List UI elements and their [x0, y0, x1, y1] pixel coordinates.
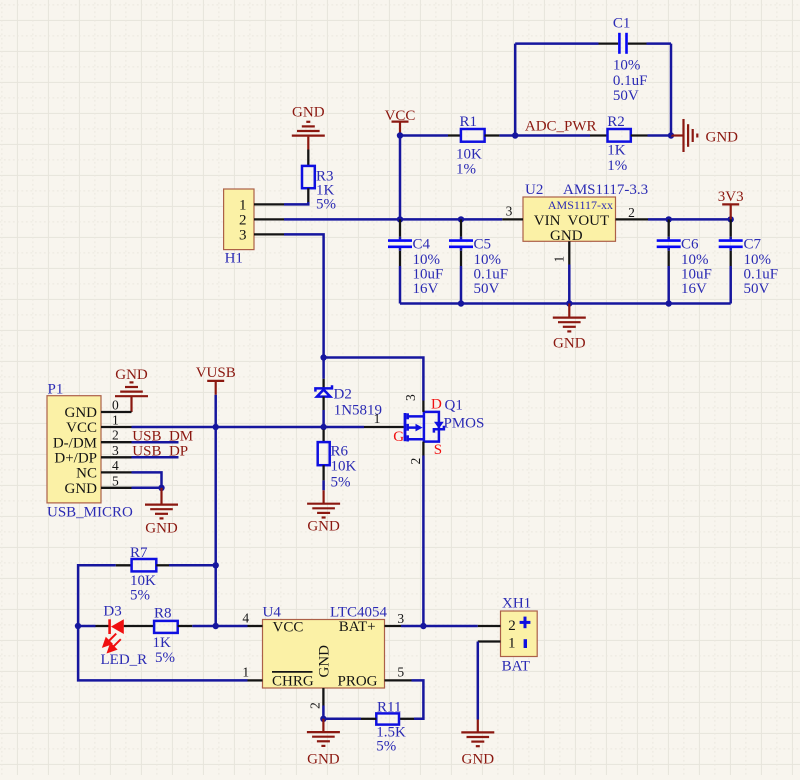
svg-text:5%: 5%: [331, 475, 351, 491]
wire R7 to VUSB rail: [169, 564, 216, 567]
C4 value labels: [413, 237, 444, 298]
svg-text:1%: 1%: [607, 158, 627, 174]
svg-text:GND: GND: [65, 481, 98, 497]
C7 pins: [730, 219, 732, 303]
wire bottom rail: [400, 302, 731, 305]
connector P1 USB_MICRO body: [47, 382, 133, 521]
wire XH1 pin1 to GND: [477, 642, 480, 720]
svg-text:P1: P1: [48, 382, 64, 398]
junction rail / C5: [458, 216, 464, 222]
wire P1 pin3 stub: [132, 456, 179, 459]
U2 pin 1 (GND): [568, 241, 570, 264]
wire Q1 source to BAT+ rail: [422, 456, 425, 627]
svg-text:5: 5: [397, 664, 404, 679]
junction ADC_PWR left: [512, 132, 518, 138]
resistor R7: [116, 545, 169, 604]
svg-text:PROG: PROG: [338, 673, 378, 689]
svg-text:3: 3: [112, 443, 119, 458]
resistor R1: [448, 114, 499, 178]
wire H1 pin2 rail to U2 VIN: [284, 218, 502, 221]
connector H1: [224, 189, 254, 267]
wire BAT+ to XH1: [401, 625, 478, 628]
power ground GND (below R11): [307, 719, 340, 768]
diode D2 1N5819: [315, 379, 382, 419]
P1 pin 5 (GND): [65, 473, 132, 497]
svg-text:GND: GND: [115, 367, 148, 383]
svg-text:3: 3: [403, 394, 418, 401]
power ground GND (below XH1): [461, 720, 494, 768]
junction VUSB rail / R7: [213, 562, 219, 568]
XH1 pin 2: [478, 625, 501, 627]
svg-text:5%: 5%: [376, 739, 396, 755]
resistor R11: [361, 700, 414, 755]
capacitor C4: [388, 241, 412, 247]
svg-text:10%: 10%: [613, 58, 641, 74]
junction VCC rail / C4: [397, 216, 403, 222]
wire P1 pin1 to VUSB node: [132, 426, 216, 429]
junction node at D2 top branch: [320, 354, 326, 360]
wire U4 PROG to R11: [412, 680, 424, 718]
resistor R3: [302, 150, 336, 213]
svg-text:USB_MICRO: USB_MICRO: [47, 505, 133, 521]
wire VUSB rail to U4 VCC: [216, 625, 248, 628]
junction BAT+ / Q1 source: [420, 623, 426, 629]
svg-text:XH1: XH1: [502, 595, 531, 611]
C7 value labels: [744, 237, 779, 298]
svg-text:4: 4: [242, 610, 249, 625]
wire P1 pin5 to GND node: [132, 487, 162, 490]
wire D2 cathode to node: [322, 410, 325, 427]
U2 pin 3 (VIN): [502, 218, 523, 220]
svg-text:U2: U2: [525, 182, 543, 198]
power ground GND (right of R2): [671, 119, 738, 152]
junction rail / C6: [666, 216, 672, 222]
junction rail / C7 / 3V3: [728, 216, 734, 222]
svg-text:NC: NC: [76, 466, 97, 482]
U4 pin 2 (GND): [322, 688, 324, 706]
svg-text:5%: 5%: [316, 197, 336, 213]
junction bottom rail / U2 GND: [566, 300, 572, 306]
Q1 pin 2 (source): [422, 442, 424, 456]
C5 pins: [460, 219, 462, 303]
power ground GND (above R3): [292, 105, 325, 150]
svg-text:GND: GND: [553, 335, 586, 351]
svg-text:VCC: VCC: [273, 619, 304, 635]
svg-text:D2: D2: [334, 386, 352, 402]
junction VCC node: [397, 132, 403, 138]
svg-text:U4: U4: [263, 605, 282, 621]
capacitor C7: [719, 241, 743, 247]
svg-text:GND: GND: [307, 519, 340, 535]
capacitor C5: [449, 241, 473, 247]
svg-text:S: S: [434, 442, 442, 458]
svg-text:BAT+: BAT+: [339, 619, 376, 635]
H1 pin 1: [254, 203, 284, 205]
junction VUSB / pin1: [213, 424, 219, 430]
svg-text:R2: R2: [607, 114, 625, 130]
svg-text:C4: C4: [413, 237, 431, 253]
resistor R8: [124, 606, 193, 667]
wire left rail: [78, 565, 247, 680]
wire P1 pin2 stub: [132, 441, 179, 444]
svg-text:10K: 10K: [331, 459, 357, 475]
power ground GND (below P1): [145, 488, 178, 537]
svg-text:2: 2: [112, 428, 119, 443]
svg-text:C1: C1: [613, 15, 631, 31]
wire U2 VOUT rail to 3V3: [648, 218, 731, 221]
wire R11 to U4 GND node: [323, 718, 361, 721]
svg-text:R6: R6: [331, 444, 349, 460]
wire P1 pin4 to pin5 node: [132, 472, 162, 487]
junction D2 / R6 / gate: [320, 424, 326, 430]
wire H1 pin1 to R3: [284, 202, 308, 204]
junction bottom rail / C5: [458, 300, 464, 306]
U4 pin 3 (BAT+): [385, 625, 402, 627]
svg-text:H1: H1: [225, 251, 243, 267]
svg-text:D+/DP: D+/DP: [54, 451, 97, 467]
wire junction to Q1 drain: [324, 358, 424, 401]
wire VUSB stem: [214, 395, 217, 427]
U4 pin 5 (PROG): [385, 679, 412, 681]
junction VUSB rail / R8 / U4 VCC: [213, 623, 219, 629]
wire C1 right leg: [670, 44, 673, 136]
junction U4 GND / R11: [320, 716, 326, 722]
svg-text:10K: 10K: [456, 147, 482, 163]
svg-text:16V: 16V: [413, 281, 439, 297]
power port 3V3: [718, 189, 744, 220]
power port VCC: [385, 108, 416, 136]
svg-text:D: D: [431, 396, 442, 412]
wire to D2 anode: [322, 358, 325, 379]
svg-text:50V: 50V: [474, 281, 500, 297]
U2 pin 2 (VOUT): [616, 218, 649, 220]
svg-text:GND: GND: [550, 228, 583, 244]
junction pin4/pin5 ground: [158, 485, 164, 491]
svg-text:0: 0: [112, 398, 119, 413]
svg-text:2: 2: [408, 458, 423, 465]
svg-text:5: 5: [112, 473, 119, 488]
svg-text:AMS1117-3.3: AMS1117-3.3: [563, 182, 648, 198]
svg-text:3: 3: [397, 611, 404, 626]
C6 pins: [668, 219, 670, 303]
U4 pin 1 (CHRG): [248, 679, 263, 681]
svg-text:D3: D3: [103, 604, 121, 620]
svg-text:3V3: 3V3: [718, 189, 744, 205]
svg-text:BAT: BAT: [502, 658, 530, 674]
svg-text:1: 1: [552, 256, 567, 263]
P1 pin 3 (D+/DP): [54, 443, 131, 467]
svg-text:VCC: VCC: [66, 420, 97, 436]
wire U2 GND to bottom rail: [568, 265, 571, 304]
op-amp U2 AMS1117-3.3 body: [523, 182, 648, 244]
svg-text:1%: 1%: [456, 162, 476, 178]
power ground GND (above P1 pin0): [115, 367, 148, 412]
junction left rail / LED: [75, 623, 81, 629]
wire VUSB vertical rail upper: [214, 427, 217, 565]
svg-text:LED_R: LED_R: [101, 652, 148, 668]
P1 pin 1 (VCC): [66, 413, 131, 437]
svg-text:GND: GND: [706, 129, 739, 145]
svg-text:G: G: [393, 429, 404, 445]
wire C1 top right: [647, 42, 672, 45]
wire gate pin lead: [324, 426, 364, 429]
wire H1 pin3 to vertical: [284, 234, 324, 357]
connector XH1 body: [501, 595, 538, 674]
wire U4 GND down: [322, 706, 325, 719]
svg-text:GND: GND: [292, 105, 325, 121]
svg-text:C7: C7: [744, 237, 762, 253]
svg-text:50V: 50V: [744, 281, 770, 297]
svg-text:1: 1: [374, 411, 381, 426]
svg-text:2: 2: [628, 205, 635, 220]
svg-text:GND: GND: [462, 751, 495, 767]
svg-text:3: 3: [239, 228, 247, 244]
Q1 labels: [393, 396, 484, 457]
H1 pin 3: [254, 233, 284, 235]
resistor R6: [318, 427, 357, 491]
transistor Q1 PMOS: [405, 412, 444, 442]
capacitor C1: [599, 15, 648, 104]
wire ADC_PWR to R2: [515, 134, 590, 137]
capacitor C6: [657, 241, 681, 247]
junction C1 right leg: [668, 132, 674, 138]
svg-text:D-/DM: D-/DM: [53, 435, 97, 451]
svg-text:GND: GND: [145, 520, 178, 536]
svg-text:R1: R1: [460, 114, 478, 130]
svg-text:GND: GND: [317, 645, 333, 678]
U4 pin 4 (VCC): [248, 625, 263, 627]
C5 value labels: [474, 237, 509, 298]
svg-text:GND: GND: [307, 751, 340, 767]
H1 pin 2: [254, 218, 284, 220]
svg-text:1K: 1K: [607, 143, 626, 159]
svg-text:VOUT: VOUT: [568, 213, 610, 229]
resistor R2: [590, 114, 648, 174]
svg-text:VIN: VIN: [534, 213, 561, 229]
wire R6 to GND: [322, 480, 325, 490]
power ground GND (below R6): [307, 490, 340, 534]
wire R8 to VUSB rail: [192, 625, 215, 628]
LED D3: [78, 604, 147, 668]
svg-text:4: 4: [112, 458, 119, 473]
svg-text:2: 2: [308, 702, 323, 709]
Q1 pin 3 (drain): [422, 401, 424, 412]
wire VCC to R1: [400, 134, 448, 137]
op-amp U4 LTC4054 body: [263, 605, 388, 690]
power port VUSB: [196, 365, 236, 395]
wire VCC vertical to rail: [399, 136, 402, 220]
svg-text:1K: 1K: [153, 635, 172, 651]
wire C1 top left: [515, 42, 598, 45]
svg-text:50V: 50V: [613, 88, 639, 104]
C6 value labels: [681, 237, 712, 298]
svg-text:5%: 5%: [155, 650, 175, 666]
svg-text:1: 1: [112, 413, 119, 428]
svg-text:CHRG: CHRG: [272, 673, 314, 689]
XH1 pin 1: [478, 640, 501, 642]
svg-text:1: 1: [239, 198, 247, 214]
svg-text:VUSB: VUSB: [196, 365, 236, 381]
svg-text:R11: R11: [377, 700, 401, 716]
power ground GND (below U2): [553, 304, 586, 352]
wire R1 to node ADC_PWR: [499, 134, 515, 137]
P1 pin 2 (D-/DM): [53, 428, 132, 452]
svg-text:C5: C5: [474, 237, 492, 253]
svg-text:5%: 5%: [130, 588, 150, 604]
junction bottom rail / C6: [666, 300, 672, 306]
svg-text:16V: 16V: [681, 281, 707, 297]
svg-text:3: 3: [506, 204, 513, 219]
svg-text:2: 2: [239, 213, 247, 229]
svg-text:1: 1: [242, 664, 249, 679]
wire VUSB rail lower: [214, 565, 217, 626]
svg-text:2: 2: [508, 618, 516, 634]
svg-text:AMS1117-xx: AMS1117-xx: [548, 198, 613, 212]
svg-text:R8: R8: [154, 606, 172, 622]
svg-text:GND: GND: [65, 405, 98, 421]
svg-text:0.1uF: 0.1uF: [613, 73, 648, 89]
svg-text:ADC_PWR: ADC_PWR: [525, 119, 597, 135]
svg-text:PMOS: PMOS: [444, 416, 485, 432]
svg-text:Q1: Q1: [445, 397, 463, 413]
svg-text:1: 1: [508, 636, 516, 652]
wire VUSB node to D2 node: [216, 426, 324, 429]
svg-text:VCC: VCC: [385, 108, 416, 124]
C4 pins: [399, 219, 401, 303]
P1 pin 0 (GND): [65, 398, 132, 422]
P1 pin 4 (NC): [76, 458, 131, 482]
svg-text:C6: C6: [681, 237, 699, 253]
wire R2 to GND node: [648, 134, 672, 137]
wire C1 left leg: [514, 44, 517, 136]
svg-text:R7: R7: [130, 545, 148, 561]
